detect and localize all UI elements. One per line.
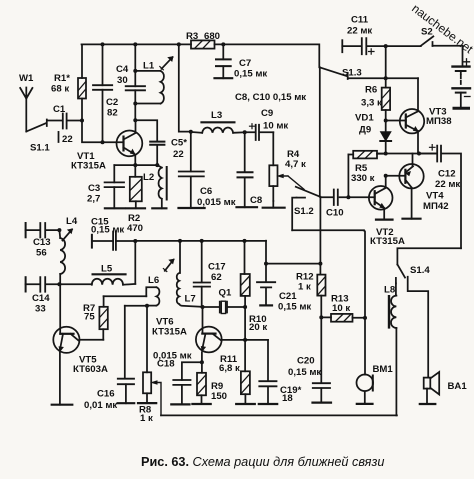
wire VT5 base: [59, 284, 61, 334]
svg-text:R3: R3: [186, 31, 198, 42]
svg-text:C9: C9: [261, 108, 273, 119]
node VT3 emitter-rail: [417, 152, 421, 156]
svg-text:470: 470: [127, 223, 143, 234]
switch S1.4 arm: [397, 265, 405, 278]
svg-text:4,7 к: 4,7 к: [285, 159, 306, 170]
node C17-Q1-base: [201, 305, 205, 309]
svg-text:C13: C13: [33, 237, 51, 248]
capacitor C4: [126, 44, 145, 120]
wire R1 node down to base: [82, 121, 124, 143]
svg-text:Рис. 63. Схема рации для ближн: Рис. 63. Схема рации для ближней связи: [141, 455, 384, 469]
svg-text:C2: C2: [106, 97, 118, 108]
svg-text:C14: C14: [32, 293, 50, 304]
resistor R12: [317, 264, 325, 318]
wire top rail right section to S1.3 corner: [215, 44, 320, 67]
wire VT3 collector: [417, 78, 419, 111]
svg-text:C7: C7: [239, 58, 251, 69]
node C4-L1 bottom: [133, 102, 137, 106]
node R12-R13-C20: [319, 315, 323, 319]
resistor R3: [191, 40, 215, 48]
node C15-L5: [133, 239, 137, 243]
svg-text:S1.4: S1.4: [410, 265, 430, 276]
inductor L6: [146, 287, 159, 305]
capacitor C9 polarized: [245, 124, 274, 140]
svg-text:56: 56: [36, 248, 47, 259]
wire mic column: [364, 231, 365, 318]
wire C12 to S1.4: [397, 248, 461, 264]
node antenna-TX: [57, 228, 61, 232]
capacitor C18: [173, 362, 202, 404]
svg-text:C12: C12: [438, 169, 456, 180]
wire S2 to battery: [433, 46, 463, 67]
ground C7: [215, 77, 233, 79]
resistor R7: [99, 296, 107, 340]
ground VT2 emitter: [376, 219, 393, 221]
svg-text:C8: C8: [250, 195, 263, 206]
microphone BM1: [357, 375, 374, 404]
svg-text:10 мк: 10 мк: [263, 121, 288, 132]
node C21 rail left: [264, 262, 268, 266]
switch S1.3: [320, 67, 348, 79]
ground C3: [105, 207, 125, 209]
node R13-BM1: [363, 316, 367, 320]
capacitor C15: [92, 232, 135, 250]
switch S1.1: [26, 120, 58, 143]
speaker BA1: [424, 372, 440, 404]
svg-text:S1.2: S1.2: [294, 206, 314, 217]
wire C15 rail corner down: [265, 241, 267, 264]
svg-text:C1: C1: [53, 104, 66, 115]
svg-text:L3: L3: [211, 110, 222, 121]
svg-text:20 к: 20 к: [249, 322, 267, 333]
node L3-C6: [189, 130, 193, 134]
svg-text:C5*: C5*: [171, 138, 187, 149]
inductor L3: [191, 127, 245, 132]
svg-text:L1: L1: [143, 61, 155, 72]
svg-text:3,3 к: 3,3 к: [361, 98, 382, 109]
node C2-base: [101, 140, 105, 144]
inductor L7: [177, 241, 203, 307]
ground R4: [263, 207, 285, 209]
diode VD1: [380, 121, 391, 154]
capacitor C19*: [259, 381, 276, 404]
node rail-C4: [133, 42, 137, 46]
svg-text:1 к: 1 к: [140, 413, 153, 424]
svg-text:КТ315А: КТ315А: [152, 327, 187, 338]
svg-text:Д9: Д9: [359, 125, 371, 136]
capacitor C6: [179, 132, 204, 208]
ground L2: [152, 207, 166, 209]
svg-text:R1*: R1*: [54, 73, 70, 84]
svg-text:22: 22: [173, 149, 184, 160]
wire C21 rail: [266, 263, 320, 265]
node C10-R5-base: [346, 195, 350, 199]
ground C18: [171, 403, 189, 405]
capacitor C17: [194, 241, 210, 307]
wire C15 rail: [135, 240, 266, 242]
capacitor C11 polarized: [342, 38, 385, 54]
node C4-L1 top: [133, 69, 137, 73]
resistor R2: [130, 165, 142, 208]
ground C20: [313, 402, 332, 404]
ground BM1: [357, 403, 373, 405]
capacitor C3: [105, 165, 124, 208]
ground C19: [259, 403, 277, 405]
resistor R6: [382, 46, 390, 120]
inductor L4: [59, 230, 65, 284]
svg-text:C11: C11: [351, 15, 369, 26]
ground VT4 collector: [403, 218, 421, 220]
svg-text:0,15 мк: 0,15 мк: [278, 302, 311, 313]
capacitor C12 polarized: [419, 145, 461, 249]
transistor VT4: [386, 154, 424, 219]
svg-text:6,8 к: 6,8 к: [219, 363, 240, 374]
svg-text:33: 33: [35, 304, 46, 315]
svg-text:Q1: Q1: [219, 288, 232, 299]
svg-text:L8: L8: [384, 285, 396, 296]
capacitor C20: [313, 317, 330, 402]
svg-text:КТ315А: КТ315А: [71, 161, 106, 172]
ground C21: [260, 304, 272, 306]
node L6-C16-R8: [145, 304, 149, 308]
svg-text:BM1: BM1: [373, 364, 394, 375]
svg-text:82: 82: [107, 108, 118, 119]
svg-text:62: 62: [211, 272, 222, 283]
svg-text:S1.1: S1.1: [30, 143, 50, 154]
svg-text:C3: C3: [88, 183, 100, 194]
resistor R5: [348, 151, 385, 197]
svg-text:680: 680: [204, 31, 220, 42]
switch S1.4 contact left: [395, 278, 397, 284]
svg-text:BA1: BA1: [448, 381, 468, 392]
wiper arrow of R4: [278, 174, 304, 189]
trimmer resistor R8: [143, 372, 151, 403]
svg-text:68 к: 68 к: [51, 84, 69, 95]
resistor R1: [78, 44, 86, 120]
svg-text:30: 30: [117, 75, 128, 86]
wire S1.2 contact to mic column: [292, 229, 364, 231]
wire C9 to R4: [272, 132, 274, 165]
wire BM1 lead: [364, 318, 366, 375]
core of L2: [166, 167, 168, 200]
wire C11 node to S2: [386, 45, 421, 47]
ground BA1: [420, 403, 436, 405]
inductor L1: [135, 71, 164, 104]
trimmer resistor R4: [269, 165, 277, 201]
svg-text:L7: L7: [185, 294, 196, 305]
svg-text:1 к: 1 к: [298, 282, 311, 293]
transistor VT1: [116, 120, 142, 165]
node S1.3 row-R6: [384, 76, 388, 80]
svg-text:S1.3: S1.3: [342, 68, 362, 79]
svg-text:МП42: МП42: [423, 201, 449, 212]
node VT4 base-VT2 collector: [384, 174, 388, 178]
ground C16: [118, 402, 135, 404]
transistor VT2: [348, 176, 392, 220]
switch S1.2 fixed contact: [292, 198, 305, 231]
trimmer arrow of L1: [160, 57, 173, 70]
svg-text:L2: L2: [143, 172, 154, 183]
node C15 rail-C17: [200, 239, 204, 243]
node rail-collector-feed: [177, 42, 181, 46]
switch S2: [421, 36, 434, 46]
resistor R13: [321, 314, 365, 322]
node rail-C7: [221, 42, 225, 46]
wire bottom common rail: [161, 414, 397, 416]
capacitor C1: [47, 114, 82, 129]
svg-text:C8, C10 0,15 мк: C8, C10 0,15 мк: [235, 92, 306, 103]
node C15 rail-L7: [178, 239, 182, 243]
svg-text:МП38: МП38: [426, 116, 452, 127]
svg-text:0,15 мк: 0,15 мк: [91, 225, 124, 236]
ground C6: [179, 207, 205, 209]
svg-text:C18: C18: [157, 359, 175, 370]
capacitor C5*: [135, 120, 164, 165]
ground C8: [237, 206, 258, 208]
svg-text:R6: R6: [365, 85, 377, 96]
svg-text:L6: L6: [148, 275, 159, 286]
svg-text:C4: C4: [116, 64, 129, 75]
wire S1.3 row: [348, 77, 418, 79]
wire L6 to R8: [146, 306, 148, 373]
svg-text:10 к: 10 к: [332, 303, 350, 314]
svg-text:C6: C6: [200, 186, 212, 197]
svg-text:0,15 мк: 0,15 мк: [234, 69, 267, 80]
capacitor C21: [257, 264, 275, 306]
inductor L8: [391, 296, 396, 416]
svg-text:VD1: VD1: [355, 113, 374, 124]
wire L8 top lead: [395, 283, 397, 295]
node Q1-R10: [243, 305, 247, 309]
core of L3: [202, 121, 235, 123]
wire R7 top to L6: [104, 295, 147, 297]
svg-text:22 мк: 22 мк: [435, 179, 460, 190]
node R6-VT3 base: [384, 119, 388, 123]
battery GB1: [453, 59, 471, 109]
inductor L2: [157, 165, 162, 208]
svg-text:VT4: VT4: [426, 191, 444, 202]
capacitor C8: [238, 132, 253, 207]
trimmer arrow of L4: [61, 229, 72, 241]
antenna W1: [20, 88, 32, 132]
wire collector feed column: [179, 44, 191, 131]
node C11-R6: [384, 44, 388, 48]
ground R11: [236, 403, 255, 405]
node VT6 collector-R11: [243, 338, 247, 342]
capacitor C16: [118, 306, 134, 404]
svg-text:S2: S2: [421, 27, 433, 38]
svg-text:L5: L5: [101, 264, 113, 275]
ground R9: [192, 403, 210, 405]
node C5 branch: [133, 118, 137, 122]
node L3-C8: [243, 130, 247, 134]
wire emitter node: [114, 164, 157, 166]
core of L5: [93, 273, 126, 275]
resistor R11: [241, 340, 250, 404]
node rail-C2: [101, 42, 105, 46]
svg-text:75: 75: [84, 312, 95, 323]
transistor VT3: [386, 109, 424, 154]
capacitor C14: [26, 277, 60, 292]
svg-text:0,015 мк: 0,015 мк: [197, 197, 236, 208]
inductor L5: [92, 279, 136, 285]
svg-text:0,15 мк: 0,15 мк: [288, 367, 321, 378]
svg-text:C20: C20: [297, 356, 315, 367]
switch S1.2 arm: [296, 187, 320, 197]
resistor R10: [241, 241, 250, 340]
node S1 column-C21 rail: [318, 262, 322, 266]
node VT1 emitter: [133, 163, 137, 167]
ground VT5 emitter: [52, 404, 73, 406]
ground R2: [127, 207, 145, 209]
node L4-C14-L5: [57, 282, 61, 286]
capacitor C7: [216, 44, 231, 78]
svg-text:КТ603А: КТ603А: [73, 364, 108, 375]
core of L8: [388, 296, 390, 327]
svg-text:0,01 мк: 0,01 мк: [84, 400, 117, 411]
svg-text:22: 22: [62, 134, 73, 145]
svg-text:C10: C10: [326, 208, 344, 219]
wire emitter rail: [378, 153, 437, 155]
pole wire S1-column: [319, 67, 322, 263]
capacitor C13: [26, 223, 60, 238]
svg-text:L4: L4: [66, 216, 78, 227]
trimmer arrow of L7: [163, 259, 174, 271]
wire node B to L5: [59, 283, 91, 285]
svg-text:C21: C21: [279, 291, 297, 302]
node R1-C1: [80, 119, 84, 123]
svg-text:C17: C17: [208, 262, 226, 273]
capacitor C2: [93, 44, 112, 142]
svg-text:330 к: 330 к: [351, 173, 375, 184]
svg-text:22 мк: 22 мк: [347, 26, 372, 37]
svg-text:C16: C16: [97, 389, 115, 400]
node C5-L2: [155, 163, 159, 167]
wire VT6 collector to C19: [267, 340, 269, 381]
node C15 rail-R10: [243, 239, 247, 243]
svg-text:150: 150: [211, 391, 227, 402]
capacitor C10: [320, 190, 348, 206]
transistor VT6: [196, 307, 268, 362]
ground R8: [138, 402, 156, 404]
wire top supply rail left section: [82, 43, 192, 45]
svg-text:КТ315А: КТ315А: [370, 236, 405, 247]
node VD1-rail: [384, 152, 388, 156]
wire C16 branch: [125, 305, 147, 307]
svg-text:18: 18: [282, 393, 293, 404]
resistor R9: [197, 362, 206, 404]
wire C15 junction down to L5: [134, 241, 136, 284]
svg-text:W1: W1: [19, 73, 34, 84]
switch S1.4 contact right wire to speaker: [408, 277, 429, 378]
svg-text:2,7: 2,7: [87, 194, 100, 205]
quartz crystal Q1: [203, 301, 246, 313]
wiper arrow of R8: [152, 381, 161, 416]
node VT6 emitter: [200, 360, 204, 364]
transistor VT5: [53, 327, 103, 405]
